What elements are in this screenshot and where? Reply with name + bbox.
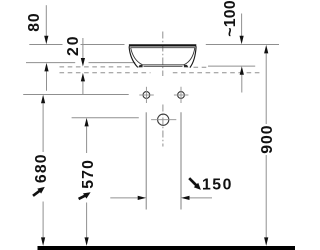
dim 20: lower line w/ up arrow onto dashed line 2	[82, 81, 84, 94]
dim 80: upper extension w/ down arrow onto line A	[44, 5, 48, 91]
outer left wall	[129, 46, 138, 67]
dashed hidden line 1 (recess top)	[60, 67, 261, 73]
svg-text:80: 80	[26, 12, 43, 31]
extension line A right (rim height)	[206, 44, 279, 46]
dim 20: upper line w/ down arrow onto dashed line 1	[81, 38, 85, 94]
centerline through drain circle	[162, 105, 164, 147]
solid reference line right (basin inner bottom level)	[208, 65, 255, 67]
rim underside	[130, 47, 195, 49]
dim 80: lower extension w/ up arrow onto line B	[46, 71, 48, 91]
svg-text:900: 900	[259, 124, 276, 153]
dim 680 line: up arrow at line C, down arrow at floor	[41, 95, 45, 246]
rim top bar	[129, 44, 196, 46]
svg-text:150: 150	[202, 177, 233, 194]
inner bottom line	[142, 64, 185, 66]
dash extension right of basin bottom	[194, 66, 208, 68]
svg-text:680: 680	[33, 153, 50, 183]
svg-text:20: 20	[65, 34, 82, 56]
leader arrow NE for 570	[79, 192, 91, 199]
leader arrow NE for 680	[33, 187, 45, 196]
dim 900 line: up arrow under line A, down arrow at floor	[264, 45, 268, 246]
svg-text:~100: ~100	[222, 0, 239, 37]
fixing hole right (circle-cross)	[174, 87, 189, 103]
floor line	[38, 246, 296, 250]
outer right wall	[190, 46, 196, 67]
drain zone vertical left	[145, 112, 147, 209]
leader arrow SE for 150	[189, 178, 201, 190]
line C fixing-hole height extension	[23, 94, 129, 96]
lower bottom line	[144, 65, 183, 67]
svg-text:570: 570	[80, 159, 97, 189]
right arrow pointing left at zone line	[190, 197, 213, 199]
fixing hole left (circle-cross)	[139, 87, 154, 103]
dim ~100: upper line w/ down arrow onto line A	[240, 14, 244, 93]
drain circle	[151, 114, 176, 125]
drain height extension line	[72, 117, 139, 119]
dim 570 line: up arrow at drain line, down arrow at floor	[85, 118, 89, 246]
dashed hidden line 2 (recess bottom)	[60, 72, 151, 74]
right foot	[184, 65, 189, 68]
left foot	[138, 65, 142, 68]
washbasin bowl (side view)	[129, 45, 196, 67]
line B console top left	[26, 62, 75, 64]
dim ~100: lower line w/ up arrow onto bottom ref line	[241, 75, 243, 93]
inner left wall	[131, 48, 143, 65]
inner right wall	[184, 48, 195, 65]
drain zone vertical right	[180, 112, 182, 209]
extension line A left (rim height), left of text 20	[23, 45, 279, 118]
centerline through basin	[162, 32, 164, 147]
dim 150 arrows: left arrow pointing right at zone line	[110, 196, 212, 200]
